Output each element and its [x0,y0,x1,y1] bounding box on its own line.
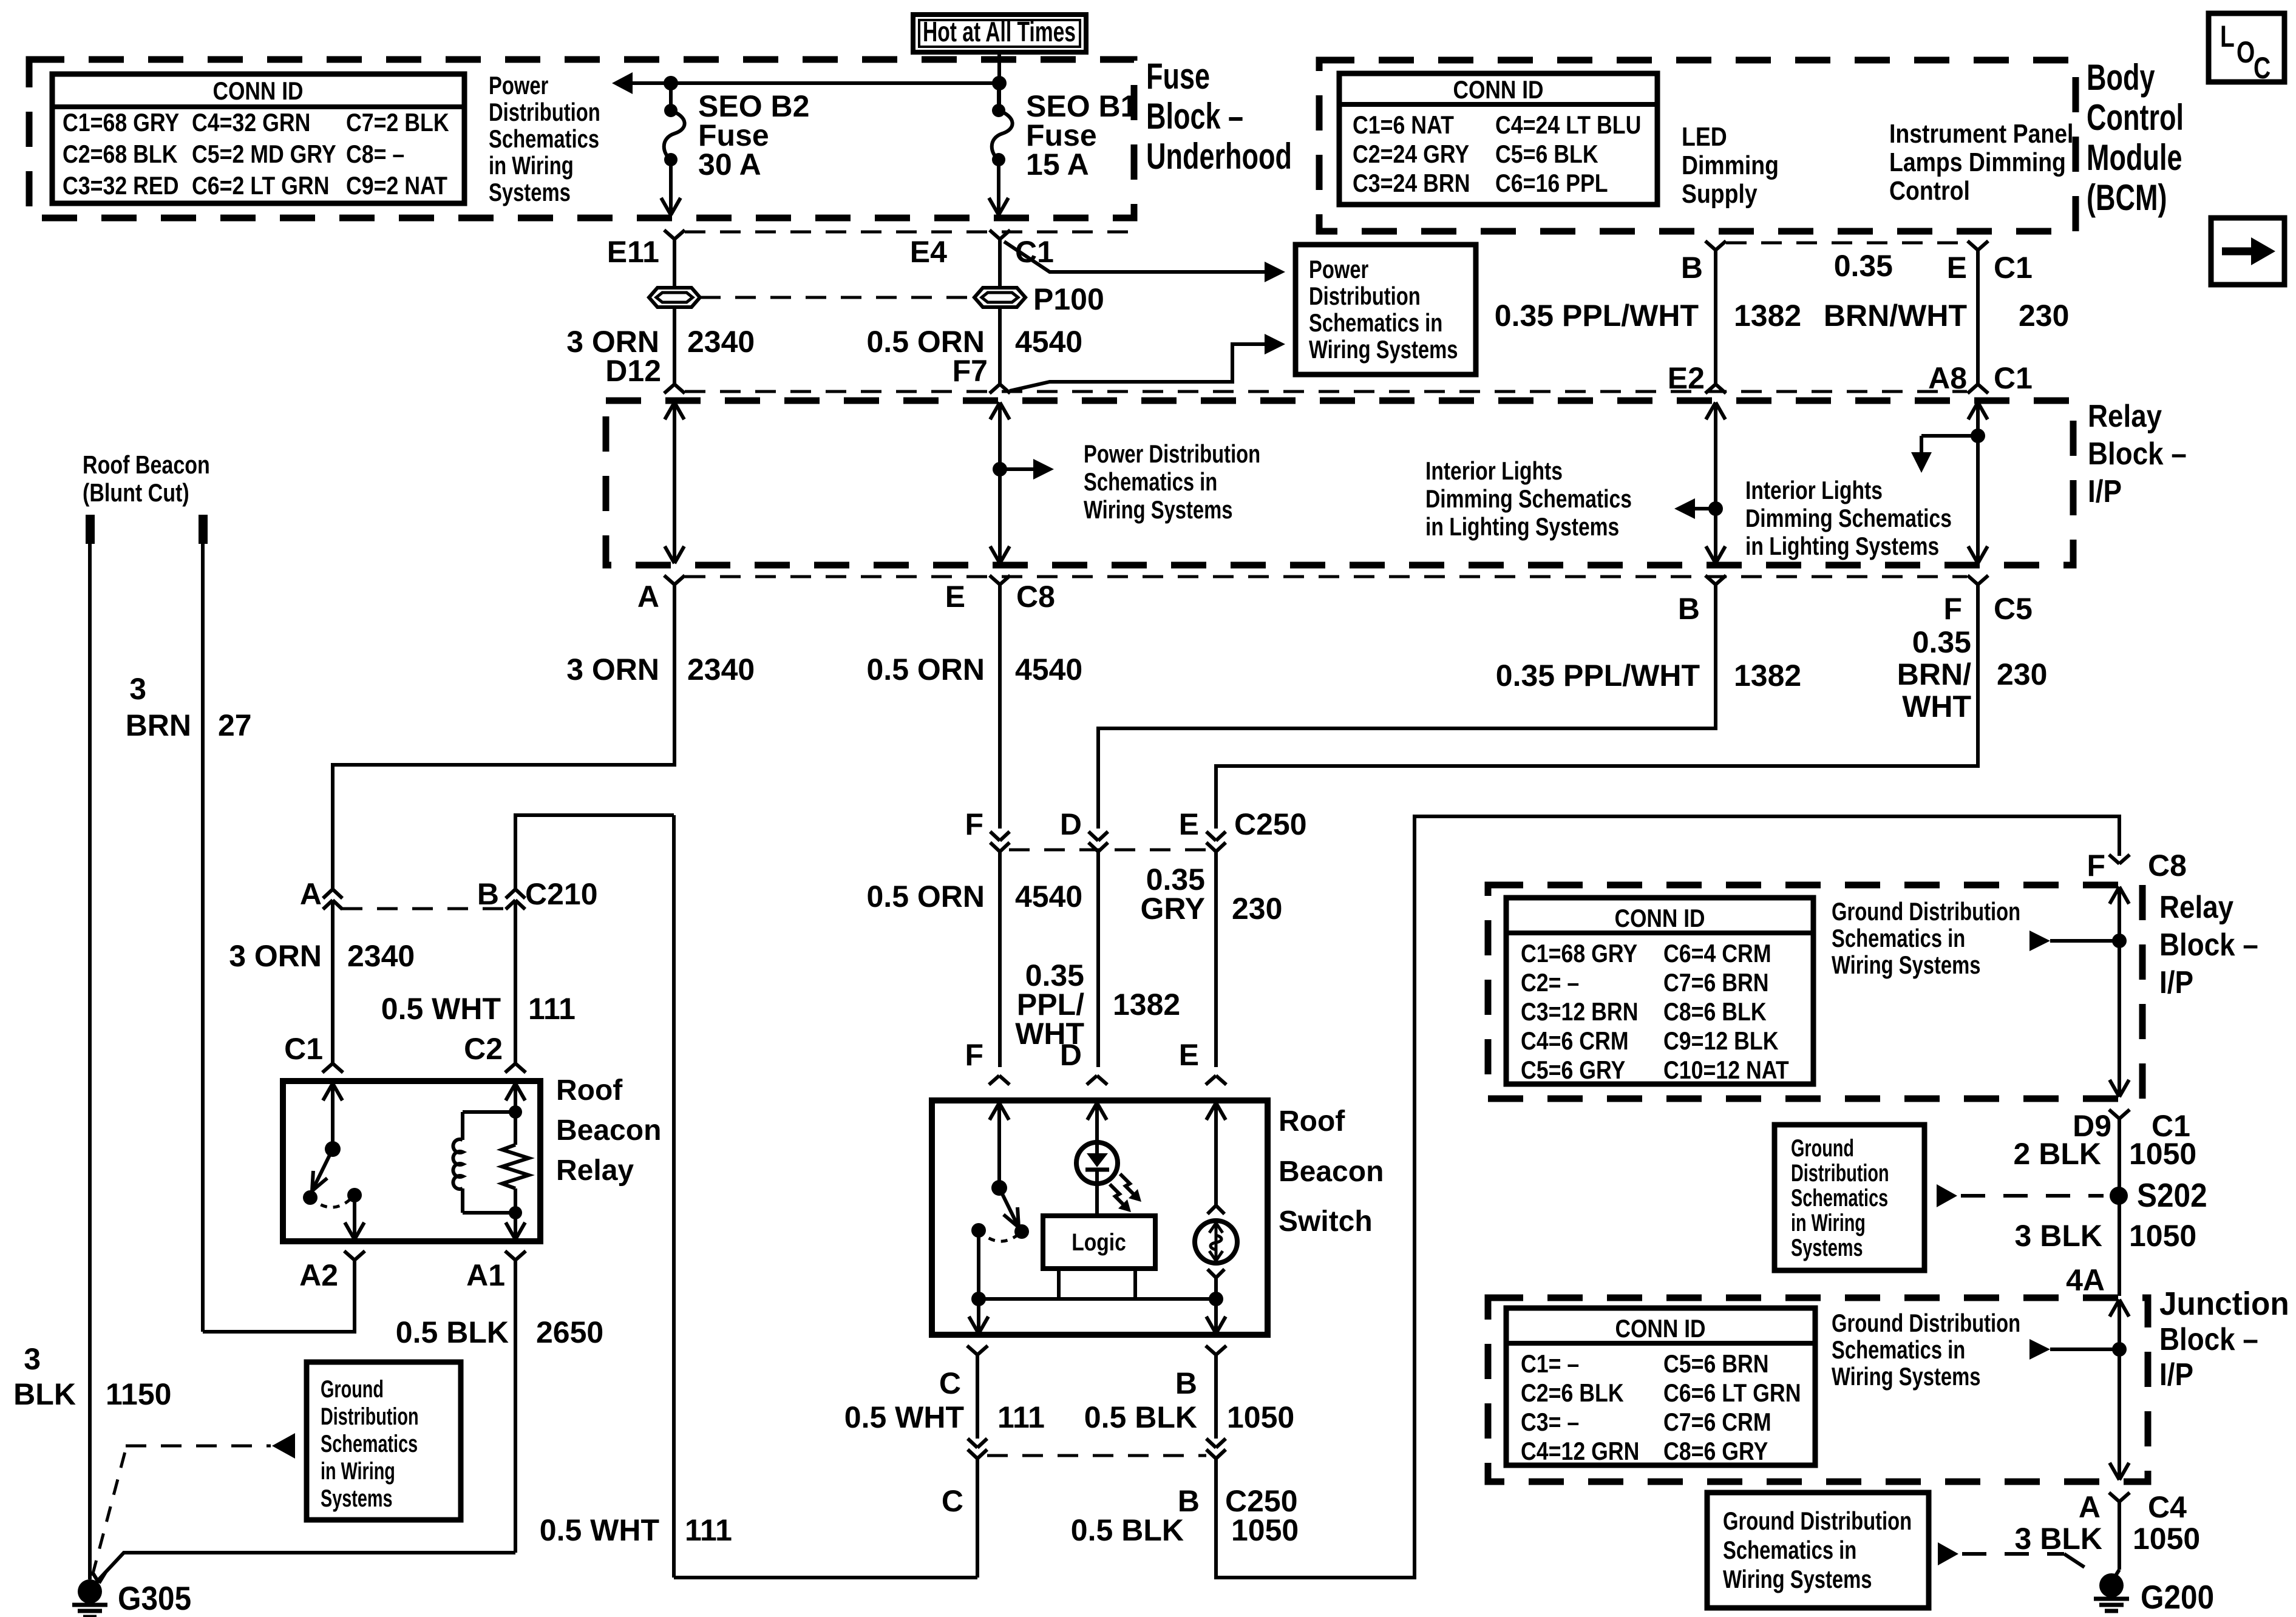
svg-text:Dimming Schematics: Dimming Schematics [1425,484,1632,513]
svg-text:2 BLK: 2 BLK [2014,1137,2102,1171]
svg-text:C8=6 GRY: C8=6 GRY [1663,1437,1768,1465]
svg-text:I/P: I/P [2159,965,2193,1000]
svg-text:Schematics: Schematics [489,124,599,153]
svg-text:C7=2 BLK: C7=2 BLK [346,108,449,137]
svg-text:in Lighting Systems: in Lighting Systems [1425,512,1619,541]
svg-text:C1: C1 [1994,361,2033,395]
svg-text:Wiring Systems: Wiring Systems [1309,335,1458,364]
svg-text:C2=68 BLK: C2=68 BLK [63,140,178,168]
svg-text:Module: Module [2087,137,2182,178]
svg-text:I/P: I/P [2088,474,2122,509]
svg-text:C4=6 CRM: C4=6 CRM [1521,1026,1629,1055]
svg-text:F: F [1944,592,1963,626]
svg-text:0.35 PPL/WHT: 0.35 PPL/WHT [1496,659,1700,693]
svg-text:C8: C8 [1016,580,1055,614]
svg-text:C3=32 RED: C3=32 RED [63,171,179,200]
svg-text:in Wiring: in Wiring [321,1458,395,1485]
svg-text:Block –: Block – [2088,436,2187,472]
svg-text:2340: 2340 [347,939,415,973]
svg-text:C4=12 GRN: C4=12 GRN [1521,1437,1639,1465]
svg-text:C1: C1 [284,1032,323,1066]
svg-text:Distribution: Distribution [1309,282,1421,310]
svg-text:F: F [965,807,984,841]
svg-text:in Wiring: in Wiring [1791,1210,1866,1236]
svg-text:Dimming: Dimming [1682,151,1779,180]
svg-text:Power Distribution: Power Distribution [1084,439,1260,468]
svg-text:3 ORN: 3 ORN [229,939,322,973]
svg-text:F7: F7 [953,354,988,388]
svg-text:E2: E2 [1668,361,1705,395]
svg-text:Hot at All Times: Hot at All Times [923,16,1076,47]
svg-text:BRN/WHT: BRN/WHT [1824,299,1967,333]
svg-text:CONN ID: CONN ID [1453,75,1544,104]
svg-text:Beacon: Beacon [556,1114,661,1147]
svg-text:Block –: Block – [2159,927,2258,963]
svg-text:C3=12 BRN: C3=12 BRN [1521,997,1639,1026]
svg-text:Ground: Ground [1791,1135,1854,1162]
svg-text:Wiring Systems: Wiring Systems [1832,1362,1981,1391]
svg-text:230: 230 [1997,657,2047,691]
svg-text:Control: Control [1889,176,1970,206]
svg-text:Switch: Switch [1279,1205,1373,1238]
svg-text:E: E [1179,807,1199,841]
svg-text:0.35: 0.35 [1834,249,1893,283]
svg-text:Lamps Dimming: Lamps Dimming [1889,147,2066,177]
svg-text:0.5 WHT: 0.5 WHT [540,1513,659,1547]
svg-text:C2: C2 [464,1032,503,1066]
svg-text:G305: G305 [118,1579,191,1617]
svg-text:Power: Power [489,71,548,100]
svg-text:Schematics in: Schematics in [1084,467,1217,496]
svg-text:Roof: Roof [556,1074,623,1107]
svg-text:C: C [2254,51,2271,85]
svg-text:WHT: WHT [1902,690,1971,724]
svg-text:0.35: 0.35 [1912,625,1971,659]
svg-text:4540: 4540 [1015,653,1082,686]
svg-text:Body: Body [2087,57,2155,98]
svg-text:Block –: Block – [2159,1322,2258,1357]
svg-text:C5=6 BLK: C5=6 BLK [1495,140,1598,168]
svg-text:C1=68 GRY: C1=68 GRY [63,108,179,137]
svg-text:GRY: GRY [1141,892,1206,926]
svg-text:111: 111 [997,1400,1045,1434]
svg-text:3 BLK: 3 BLK [2015,1522,2103,1556]
svg-text:CONN ID: CONN ID [213,76,304,105]
svg-text:0.5 WHT: 0.5 WHT [844,1400,964,1434]
svg-text:0.5 ORN: 0.5 ORN [867,880,985,914]
svg-text:Distribution: Distribution [489,98,600,126]
svg-text:B: B [1175,1366,1197,1400]
svg-text:Interior Lights: Interior Lights [1425,456,1563,485]
svg-text:111: 111 [685,1513,732,1547]
svg-text:Supply: Supply [1682,179,1758,209]
svg-text:C2= –: C2= – [1521,968,1579,997]
svg-text:B: B [477,877,499,911]
svg-text:3 ORN: 3 ORN [566,653,659,686]
svg-text:A: A [637,580,659,614]
svg-text:F: F [965,1038,984,1072]
svg-text:(BCM): (BCM) [2087,177,2167,218]
svg-text:Systems: Systems [321,1485,393,1512]
svg-text:G200: G200 [2141,1578,2214,1616]
svg-text:I/P: I/P [2159,1357,2193,1392]
svg-text:4540: 4540 [1015,325,1082,359]
svg-text:A2: A2 [299,1258,338,1292]
svg-text:Block –: Block – [1146,96,1243,137]
svg-text:C210: C210 [525,877,598,911]
svg-text:Roof Beacon: Roof Beacon [83,450,210,479]
svg-text:LED: LED [1682,122,1727,152]
svg-text:Roof: Roof [1279,1105,1345,1137]
svg-text:1150: 1150 [106,1377,172,1411]
svg-text:C250: C250 [1234,807,1307,841]
svg-text:0.5 BLK: 0.5 BLK [1071,1513,1184,1547]
svg-text:C: C [942,1484,963,1518]
svg-text:1050: 1050 [1231,1513,1299,1547]
svg-text:A: A [300,877,322,911]
svg-text:C5=2 MD GRY: C5=2 MD GRY [192,140,336,168]
svg-text:E4: E4 [910,235,947,269]
svg-text:Power: Power [1309,255,1368,283]
svg-text:C9=12 BLK: C9=12 BLK [1663,1026,1779,1055]
svg-text:Relay: Relay [556,1154,634,1187]
svg-text:C8: C8 [2148,849,2187,883]
svg-text:C9=2 NAT: C9=2 NAT [346,171,447,200]
svg-text:Underhood: Underhood [1146,136,1292,177]
svg-text:Distribution: Distribution [321,1403,419,1430]
svg-text:Dimming Schematics: Dimming Schematics [1745,504,1952,532]
svg-text:BRN/: BRN/ [1897,657,1971,691]
svg-text:Wiring Systems: Wiring Systems [1084,495,1233,524]
svg-text:2340: 2340 [687,653,755,686]
svg-text:1382: 1382 [1734,659,1801,693]
svg-text:CONN ID: CONN ID [1615,1314,1706,1343]
svg-text:Instrument Panel: Instrument Panel [1889,119,2073,149]
svg-text:Relay: Relay [2088,399,2162,434]
svg-text:1050: 1050 [2133,1522,2200,1556]
svg-text:1050: 1050 [2129,1219,2196,1253]
svg-text:Ground Distribution: Ground Distribution [1723,1507,1912,1535]
svg-text:4A: 4A [2066,1263,2105,1297]
svg-text:P100: P100 [1033,282,1104,316]
svg-text:C7=6 CRM: C7=6 CRM [1663,1408,1771,1436]
svg-text:1050: 1050 [2129,1137,2196,1171]
svg-text:2340: 2340 [687,325,755,359]
svg-text:C4: C4 [2148,1490,2187,1524]
svg-text:E: E [1179,1038,1199,1072]
svg-text:Wiring Systems: Wiring Systems [1832,951,1981,979]
svg-text:C: C [939,1366,961,1400]
svg-text:1050: 1050 [1227,1400,1294,1434]
svg-text:C4=24 LT BLU: C4=24 LT BLU [1495,110,1641,139]
svg-text:111: 111 [528,992,576,1026]
svg-text:E11: E11 [607,235,659,269]
svg-text:A1: A1 [466,1258,505,1292]
svg-text:E: E [1947,251,1967,285]
svg-text:C8= –: C8= – [346,140,404,168]
svg-text:C2=24 GRY: C2=24 GRY [1353,140,1469,168]
svg-text:D: D [1060,1038,1082,1072]
svg-text:2650: 2650 [536,1315,603,1349]
svg-text:Distribution: Distribution [1791,1160,1889,1187]
svg-text:3: 3 [129,672,146,706]
svg-text:Relay: Relay [2159,890,2233,925]
svg-text:Schematics in: Schematics in [1723,1536,1856,1564]
svg-text:15 A: 15 A [1026,147,1089,181]
svg-text:3: 3 [24,1342,41,1376]
svg-text:Fuse: Fuse [1146,56,1210,97]
svg-text:C5: C5 [1994,592,2033,626]
svg-text:C1=6 NAT: C1=6 NAT [1353,110,1454,139]
svg-text:O: O [2237,35,2255,69]
svg-text:Systems: Systems [489,178,571,206]
svg-text:CONN ID: CONN ID [1615,904,1705,932]
svg-text:F: F [2087,849,2106,883]
svg-text:1382: 1382 [1113,988,1180,1022]
svg-text:Schematics in: Schematics in [1832,1335,1965,1364]
svg-text:BLK: BLK [13,1377,76,1411]
svg-text:Schematics: Schematics [321,1431,418,1457]
svg-text:Ground Distribution: Ground Distribution [1832,1309,2020,1337]
svg-text:Systems: Systems [1791,1235,1863,1261]
svg-text:Beacon: Beacon [1279,1156,1384,1188]
svg-text:0.35 PPL/WHT: 0.35 PPL/WHT [1495,299,1699,333]
svg-text:L: L [2220,19,2235,53]
svg-text:230: 230 [2019,299,2069,333]
svg-text:D12: D12 [605,354,661,388]
svg-text:C7=6 BRN: C7=6 BRN [1663,968,1769,997]
svg-text:C6=6 LT GRN: C6=6 LT GRN [1663,1378,1801,1407]
svg-text:230: 230 [1232,892,1282,926]
svg-text:C8=6 BLK: C8=6 BLK [1663,997,1767,1026]
svg-text:S202: S202 [2137,1176,2207,1214]
svg-text:Junction: Junction [2159,1286,2289,1322]
svg-text:C1: C1 [1994,251,2033,285]
svg-text:Schematics in: Schematics in [1832,924,1965,952]
svg-text:in Wiring: in Wiring [489,151,574,180]
svg-text:BRN: BRN [126,708,191,742]
svg-text:0.5 ORN: 0.5 ORN [867,653,985,686]
svg-text:27: 27 [218,708,252,742]
svg-text:B: B [1678,592,1700,626]
svg-text:C3= –: C3= – [1521,1408,1579,1436]
svg-text:C1= –: C1= – [1521,1349,1579,1378]
svg-text:Wiring Systems: Wiring Systems [1723,1565,1872,1593]
svg-text:1382: 1382 [1734,299,1801,333]
svg-text:D: D [1060,807,1082,841]
svg-text:C5=6 BRN: C5=6 BRN [1663,1349,1769,1378]
svg-text:C4=32 GRN: C4=32 GRN [192,108,310,137]
svg-text:C2=6 BLK: C2=6 BLK [1521,1378,1624,1407]
svg-text:Interior Lights: Interior Lights [1745,476,1883,504]
svg-text:0.5 BLK: 0.5 BLK [396,1315,509,1349]
svg-text:C1=68 GRY: C1=68 GRY [1521,939,1637,968]
svg-text:C6=2 LT GRN: C6=2 LT GRN [192,171,330,200]
svg-text:Ground: Ground [321,1376,384,1403]
svg-text:0.5 WHT: 0.5 WHT [381,992,501,1026]
svg-text:3 BLK: 3 BLK [2015,1219,2103,1253]
svg-text:30 A: 30 A [698,147,761,181]
svg-text:C6=4 CRM: C6=4 CRM [1663,939,1771,968]
svg-text:4540: 4540 [1015,880,1082,914]
svg-text:Schematics in: Schematics in [1309,308,1442,337]
svg-text:Control: Control [2087,97,2184,138]
svg-text:C5=6 GRY: C5=6 GRY [1521,1056,1625,1084]
svg-text:C6=16 PPL: C6=16 PPL [1495,169,1608,197]
svg-text:E: E [945,580,965,614]
svg-text:C10=12 NAT: C10=12 NAT [1663,1056,1789,1084]
svg-text:(Blunt Cut): (Blunt Cut) [83,478,189,507]
svg-text:A: A [2079,1490,2101,1524]
svg-text:B: B [1681,251,1703,285]
svg-text:A8: A8 [1928,361,1967,395]
svg-text:in Lighting Systems: in Lighting Systems [1745,532,1939,560]
svg-text:Ground Distribution: Ground Distribution [1832,897,2020,926]
svg-text:Schematics: Schematics [1791,1185,1888,1212]
svg-text:0.5 BLK: 0.5 BLK [1084,1400,1197,1434]
svg-text:Logic: Logic [1072,1229,1126,1256]
svg-text:C3=24 BRN: C3=24 BRN [1353,169,1470,197]
